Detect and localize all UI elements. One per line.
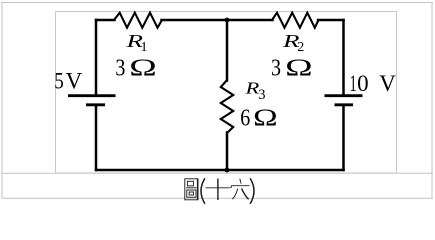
svg-text:Ω: Ω: [285, 56, 313, 82]
svg-text:3: 3: [115, 55, 125, 81]
svg-text:3: 3: [271, 56, 281, 82]
svg-text:0: 0: [357, 71, 369, 96]
svg-text:6: 6: [240, 105, 250, 131]
svg-text:3: 3: [258, 87, 265, 103]
svg-text:V: V: [66, 69, 83, 94]
svg-text:1: 1: [141, 40, 148, 55]
svg-text:1: 1: [350, 71, 357, 96]
svg-text:Ω: Ω: [129, 55, 157, 81]
svg-text:V: V: [379, 71, 396, 96]
svg-text:2: 2: [297, 40, 304, 55]
svg-text:Ω: Ω: [253, 105, 278, 131]
svg-text:5: 5: [54, 69, 64, 94]
